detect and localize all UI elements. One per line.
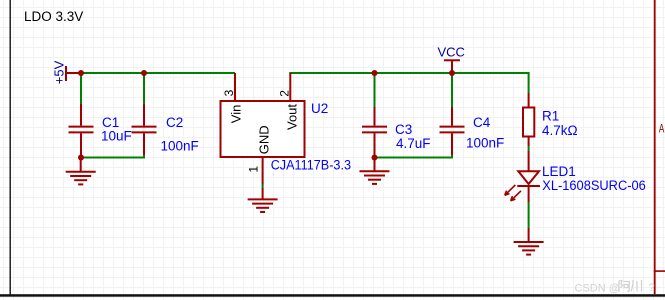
sheet frame red right border	[654, 0, 656, 294]
svg-text:10uF: 10uF	[101, 129, 132, 144]
power port +5V	[52, 60, 81, 84]
svg-text:+5V: +5V	[52, 60, 67, 84]
junction C3 top	[372, 70, 378, 76]
capacitor C4	[440, 107, 465, 155]
wire rail1 +5V to pin3	[81, 72, 235, 74]
svg-text:LED1: LED1	[542, 164, 576, 179]
svg-text:?: ?	[649, 282, 655, 294]
wire C2 top drop	[143, 73, 145, 104]
svg-text:R1: R1	[542, 109, 559, 124]
wire C2 bottom stub	[143, 152, 145, 159]
U2 pin 2 lead	[289, 73, 291, 101]
svg-text:C4: C4	[473, 115, 491, 130]
LED arrow 1	[505, 185, 516, 195]
wire R1 top drop	[528, 73, 530, 93]
watermark glyph a-chuan 2	[631, 280, 642, 292]
junction +5V/C1	[78, 70, 84, 76]
wire rail2 pin2 to R1	[289, 72, 529, 74]
svg-text:A: A	[659, 123, 665, 135]
junction VCC/C4	[449, 70, 455, 76]
capacitor C3	[362, 107, 387, 156]
svg-text:100nF: 100nF	[161, 139, 199, 154]
svg-text:3: 3	[222, 89, 236, 96]
svg-text:CSDN @: CSDN @	[575, 283, 620, 295]
svg-text:Vout: Vout	[284, 104, 299, 130]
wire R1 to LED1	[528, 146, 530, 151]
power port VCC	[438, 45, 465, 73]
svg-text:2: 2	[277, 90, 291, 97]
ground under LED1	[514, 228, 544, 255]
junction C2 top	[141, 70, 147, 76]
wire C4 top drop	[451, 73, 453, 107]
wire LED1 to ground	[528, 202, 530, 228]
wire C3 bottom stub	[374, 152, 376, 158]
wire U2 pin1 to ground	[262, 185, 264, 189]
ground under U2	[248, 188, 278, 212]
svg-text:Vin: Vin	[228, 105, 243, 124]
svg-text:C2: C2	[166, 115, 183, 130]
ground under C1	[66, 158, 96, 185]
junction C3 bottom	[372, 155, 378, 161]
LED arrow 2	[511, 191, 521, 201]
LED LED1	[505, 151, 540, 202]
U2 pin 1 lead	[262, 157, 264, 185]
U2 pin 3 lead	[234, 73, 236, 101]
svg-text:1: 1	[246, 166, 260, 173]
wire bottom rail C1-C2	[81, 157, 145, 159]
wire C1 top drop	[80, 73, 82, 104]
svg-text:CJA1117B-3.3: CJA1117B-3.3	[271, 157, 351, 172]
svg-text:LDO 3.3V: LDO 3.3V	[24, 9, 83, 24]
wire C1 bottom stub	[80, 152, 82, 158]
capacitor C2	[132, 104, 157, 155]
svg-text:100nF: 100nF	[466, 135, 504, 150]
wire C3 top drop	[374, 73, 376, 107]
sheet border black left line	[10, 0, 11, 297]
svg-text:GND: GND	[257, 125, 272, 154]
watermark glyph a-chuan 1	[619, 281, 630, 293]
svg-text:C3: C3	[395, 122, 412, 137]
svg-text:4.7uF: 4.7uF	[396, 136, 431, 151]
capacitor C1	[69, 104, 94, 156]
wire bottom rail C3-C4	[375, 157, 454, 159]
junction C1 bottom	[78, 155, 84, 161]
wire C4 bottom stub	[451, 152, 453, 159]
svg-text:XL-1608SURC-06: XL-1608SURC-06	[542, 178, 646, 193]
sheet border black bottom line	[0, 294, 665, 297]
sheet frame red zone tick	[654, 270, 665, 272]
svg-text:U2: U2	[311, 101, 328, 116]
svg-text:4.7kΩ: 4.7kΩ	[542, 123, 578, 138]
resistor R1	[523, 93, 534, 146]
regulator U2 body	[221, 101, 305, 157]
svg-text:VCC: VCC	[438, 45, 465, 60]
ground under C3	[360, 158, 390, 184]
